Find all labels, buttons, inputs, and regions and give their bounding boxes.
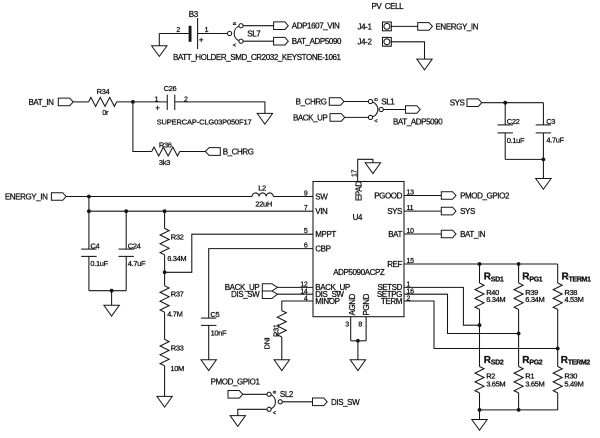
wire TERM pin 2 to RTERM node bbox=[404, 301, 558, 349]
wire R36 to B_CHRG flag bbox=[180, 151, 206, 153]
svg-text:BAT: BAT bbox=[388, 230, 402, 239]
wire SL7 to ADP1607_VIN bbox=[243, 25, 274, 27]
wire ENERGY_IN to L2 bbox=[66, 196, 252, 198]
junction node BAT_IN/C26/R36 bbox=[131, 100, 135, 104]
connector J4-2 bbox=[358, 37, 392, 46]
wire R34 to C26 bbox=[117, 101, 168, 103]
svg-text:DNI: DNI bbox=[262, 337, 271, 349]
wire J4-1 to ENERGY_IN bbox=[391, 25, 417, 27]
wire junction down to R36 bbox=[133, 102, 152, 152]
svg-text:R32: R32 bbox=[171, 233, 184, 242]
svg-text:7: 7 bbox=[304, 205, 308, 212]
svg-text:6.34M: 6.34M bbox=[525, 295, 544, 304]
svg-text:AGND: AGND bbox=[348, 293, 357, 315]
svg-text:22uH: 22uH bbox=[255, 200, 272, 209]
svg-text:SYS: SYS bbox=[387, 207, 402, 216]
wire SL7 to BAT_ADP5090 bbox=[243, 40, 274, 42]
svg-text:R34: R34 bbox=[97, 87, 110, 96]
svg-text:C26: C26 bbox=[164, 84, 177, 93]
junction node C3/ground bbox=[542, 158, 546, 162]
ground divider bbox=[472, 420, 487, 431]
svg-text:4.7M: 4.7M bbox=[167, 310, 182, 319]
wire PGND pin 8 bbox=[365, 317, 367, 341]
svg-text:1: 1 bbox=[155, 96, 159, 103]
svg-text:TERM: TERM bbox=[381, 297, 403, 306]
svg-text:9: 9 bbox=[304, 191, 308, 198]
junction node SETSD bbox=[478, 323, 482, 327]
wire C22 bottom to C3 bbox=[505, 158, 543, 160]
svg-text:PMOD_GPIO1: PMOD_GPIO1 bbox=[211, 377, 261, 386]
svg-text:0.1uF: 0.1uF bbox=[507, 136, 525, 145]
svg-text:5: 5 bbox=[304, 228, 308, 235]
wire C4/C24 bottoms joined bbox=[89, 290, 126, 292]
capacitor C4 bbox=[81, 211, 108, 291]
wire AGND/PGND join bbox=[351, 340, 366, 342]
junction node VIN/C4 bbox=[87, 209, 91, 213]
wire MINOP pin 4 to R31 bbox=[282, 301, 313, 311]
connector J4-1 bbox=[358, 22, 392, 31]
junction node SETPG bbox=[517, 332, 521, 336]
svg-text:DIS_SW: DIS_SW bbox=[331, 398, 360, 407]
svg-text:PMOD_GPIO2: PMOD_GPIO2 bbox=[460, 192, 510, 201]
wire battery to SL7 bbox=[198, 33, 228, 35]
svg-text:+: + bbox=[199, 36, 204, 45]
net flag BAT_ADP5090 bbox=[274, 37, 342, 46]
net flag DIS_SW (to pin 14) bbox=[231, 290, 277, 299]
wire SETPG pin 16 to RPG node bbox=[404, 294, 519, 333]
svg-text:0r: 0r bbox=[102, 108, 109, 117]
ground AGND/PGND bbox=[350, 360, 365, 371]
wire PMOD_GPIO1 to SL2 bbox=[243, 393, 267, 395]
svg-text:4.53M: 4.53M bbox=[564, 295, 583, 304]
capacitor C5 bbox=[201, 310, 227, 360]
ground C5 bbox=[201, 360, 216, 371]
junction node TERM bbox=[556, 347, 560, 351]
svg-text:3k3: 3k3 bbox=[159, 158, 170, 167]
ground C22/C3 bbox=[536, 179, 551, 190]
junction node REF/RSD1 bbox=[478, 262, 482, 266]
junction node R32/R37/MPPT bbox=[163, 270, 167, 274]
svg-text:SL2: SL2 bbox=[280, 390, 294, 399]
junction node VIN/C24 bbox=[124, 209, 128, 213]
junction node bottom RPG2 bbox=[517, 408, 521, 412]
net flag PMOD_GPIO1 bbox=[211, 377, 261, 398]
svg-text:ENERGY_IN: ENERGY_IN bbox=[5, 192, 48, 201]
net flag B_CHRG (output, points left) bbox=[205, 148, 254, 157]
svg-text:B: B bbox=[272, 391, 278, 394]
svg-text:SD2: SD2 bbox=[491, 360, 504, 367]
ground R33 bbox=[157, 396, 172, 407]
svg-text:ADP1607_VIN: ADP1607_VIN bbox=[292, 22, 340, 31]
svg-text:B: B bbox=[232, 22, 238, 25]
svg-text:B_CHRG: B_CHRG bbox=[296, 97, 327, 106]
svg-text:3: 3 bbox=[345, 322, 349, 329]
svg-text:SYS: SYS bbox=[450, 99, 465, 108]
wire bottom rail to ground bbox=[479, 410, 481, 420]
svg-text:3.65M: 3.65M bbox=[486, 380, 505, 389]
wire SL1 common to BAT_ADP5090 bbox=[383, 109, 405, 111]
net flag B_CHRG (to SL1) bbox=[296, 97, 344, 106]
battery B3 bbox=[176, 10, 208, 49]
capacitor C26 supercap bbox=[155, 84, 252, 127]
wire DIS_SW flag to pin 14 bbox=[278, 293, 314, 295]
net flag ADP1607_VIN bbox=[274, 22, 340, 31]
wire SYS pin 11 bbox=[404, 210, 441, 212]
svg-text:PGOOD: PGOOD bbox=[374, 191, 402, 200]
svg-text:SYS: SYS bbox=[460, 207, 475, 216]
svg-text:4.7uF: 4.7uF bbox=[128, 259, 146, 268]
svg-text:B: B bbox=[373, 98, 379, 101]
svg-text:10nF: 10nF bbox=[211, 329, 227, 338]
ground EPAD bbox=[365, 163, 380, 174]
svg-text:C4: C4 bbox=[90, 241, 99, 250]
resistor R40 RSD1 bbox=[475, 264, 505, 367]
svg-text:SL7: SL7 bbox=[247, 29, 261, 38]
net flag SYS (top right) bbox=[450, 99, 482, 108]
svg-text:8: 8 bbox=[358, 322, 362, 329]
svg-text:R33: R33 bbox=[171, 343, 184, 352]
wire J4-2 to ground bbox=[391, 42, 424, 59]
svg-text:R36: R36 bbox=[159, 141, 172, 150]
svg-text:B3: B3 bbox=[189, 10, 199, 19]
wire to ground bbox=[357, 341, 359, 360]
svg-text:BAT_IN: BAT_IN bbox=[460, 230, 486, 239]
svg-text:BAT_ADP5090: BAT_ADP5090 bbox=[292, 37, 342, 46]
switch SL7 bbox=[228, 22, 262, 46]
wire to ground stub bbox=[111, 291, 113, 306]
wire BACK_UP to SL1 bbox=[345, 116, 369, 118]
svg-text:3.65M: 3.65M bbox=[525, 380, 544, 389]
net flag BACK_UP (to SL1) bbox=[293, 113, 345, 122]
svg-text:SW: SW bbox=[315, 192, 328, 201]
wire battery negative bbox=[159, 33, 188, 35]
svg-text:L2: L2 bbox=[258, 183, 266, 192]
junction node caps ground bbox=[110, 289, 114, 293]
svg-text:4.7uF: 4.7uF bbox=[546, 135, 564, 144]
svg-text:C22: C22 bbox=[507, 117, 520, 126]
svg-text:TERM1: TERM1 bbox=[569, 276, 591, 283]
svg-text:PG2: PG2 bbox=[529, 360, 542, 367]
resistor R36 bbox=[152, 141, 180, 167]
switch SL2 bbox=[267, 390, 294, 414]
svg-text:ENERGY_IN: ENERGY_IN bbox=[436, 22, 479, 31]
wire EPAD to ground bbox=[358, 159, 373, 181]
wire SYS to caps bbox=[482, 102, 544, 104]
ground SL2 bbox=[230, 416, 245, 427]
net flag ENERGY_IN (left) bbox=[5, 192, 66, 201]
net flag SYS bbox=[441, 207, 475, 216]
wire B_CHRG to SL1 bbox=[344, 101, 368, 103]
wire PGOOD pin 13 bbox=[404, 195, 441, 197]
resistor R30 RTERM2 bbox=[553, 355, 590, 410]
svg-text:CELL: CELL bbox=[385, 2, 404, 11]
wire REF pin 15 rail bbox=[404, 263, 558, 265]
IC U4 ADP5090ACPZ body bbox=[313, 182, 404, 317]
net flag DIS_SW (from SL2) bbox=[313, 398, 361, 407]
svg-text:EPAD: EPAD bbox=[354, 181, 363, 201]
svg-text:2: 2 bbox=[176, 27, 180, 34]
svg-text:10M: 10M bbox=[170, 364, 184, 373]
svg-text:J4-2: J4-2 bbox=[358, 38, 373, 47]
svg-text:U4: U4 bbox=[353, 213, 363, 222]
switch SL1 bbox=[368, 97, 395, 122]
wire BAT_IN to R34 bbox=[73, 101, 88, 103]
svg-text:SD1: SD1 bbox=[491, 276, 504, 283]
resistor R38 RTERM1 bbox=[553, 264, 591, 367]
svg-text:1: 1 bbox=[205, 27, 209, 34]
net flag BAT_ADP5090 (from SL1) bbox=[393, 106, 443, 127]
resistor R33 bbox=[160, 339, 184, 396]
net flag BACK_UP (to pin 12) bbox=[225, 283, 278, 292]
svg-text:R37: R37 bbox=[171, 289, 184, 298]
svg-text:PV: PV bbox=[372, 2, 383, 11]
svg-text:+: + bbox=[155, 104, 160, 113]
net flag PMOD_GPIO2 bbox=[441, 192, 510, 201]
svg-text:VIN: VIN bbox=[315, 207, 328, 216]
ground R31 bbox=[274, 360, 289, 371]
junction node bottom RSD2 bbox=[478, 408, 482, 412]
junction node REF/RPG1 bbox=[517, 262, 521, 266]
resistor R1 RPG2 bbox=[514, 355, 544, 410]
wire MPPT feedback bbox=[165, 234, 313, 272]
svg-text:PGND: PGND bbox=[362, 293, 371, 315]
ground C26 bbox=[257, 113, 272, 124]
wire down to VIN rail bbox=[88, 197, 90, 212]
junction node SYS/C22 bbox=[503, 101, 507, 105]
svg-text:PG1: PG1 bbox=[529, 276, 542, 283]
junction node AGND/PGND bbox=[356, 339, 360, 343]
junction node VIN/R32 bbox=[163, 209, 167, 213]
junction node ENERGY_IN/VIN bbox=[87, 195, 91, 199]
svg-text:TERM2: TERM2 bbox=[568, 360, 590, 367]
svg-text:J4-1: J4-1 bbox=[358, 22, 373, 31]
wire VIN rail bbox=[89, 210, 313, 212]
svg-text:C3: C3 bbox=[546, 117, 555, 126]
svg-text:B_CHRG: B_CHRG bbox=[223, 148, 254, 157]
resistor R31 (DNI) bbox=[262, 311, 286, 360]
wire L2 to SW pin bbox=[273, 196, 313, 198]
resistor R37 bbox=[160, 272, 184, 339]
inductor L2 bbox=[252, 183, 273, 208]
svg-text:BAT_ADP5090: BAT_ADP5090 bbox=[393, 118, 443, 127]
net flag BAT_IN bbox=[441, 230, 485, 239]
wire CBP pin 6 to C5 bbox=[209, 249, 313, 319]
wire C26 to ground bbox=[175, 102, 265, 114]
svg-text:MINOP: MINOP bbox=[315, 297, 339, 306]
svg-text:SUPERCAP-CLG03P050F17: SUPERCAP-CLG03P050F17 bbox=[157, 118, 252, 127]
wire divider bottom rail bbox=[480, 409, 558, 411]
svg-text:C24: C24 bbox=[128, 241, 141, 250]
wire SETSD pin 1 to RSD node bbox=[404, 287, 480, 325]
resistor R39 RPG1 bbox=[514, 264, 544, 367]
resistor R32 bbox=[160, 211, 186, 272]
svg-text:0.1uF: 0.1uF bbox=[90, 259, 108, 268]
svg-text:BAT_IN: BAT_IN bbox=[28, 98, 54, 107]
svg-text:6.34M: 6.34M bbox=[167, 254, 186, 263]
capacitor C3 bbox=[536, 103, 565, 179]
capacitor C22 bbox=[498, 103, 525, 160]
svg-text:MPPT: MPPT bbox=[315, 230, 336, 239]
svg-text:5.49M: 5.49M bbox=[564, 380, 583, 389]
wire SL2 throw A to ground bbox=[238, 409, 267, 415]
wire BAT pin 10 bbox=[404, 233, 441, 235]
svg-text:BACK_UP: BACK_UP bbox=[293, 113, 328, 122]
svg-text:6.34M: 6.34M bbox=[486, 295, 505, 304]
svg-text:BATT_HOLDER_SMD_CR2032_KEYSTON: BATT_HOLDER_SMD_CR2032_KEYSTONE-1061 bbox=[173, 53, 342, 62]
net flag BAT_IN (left) bbox=[28, 98, 73, 107]
resistor R2 RSD2 bbox=[475, 355, 505, 410]
ground C4/C24 bbox=[104, 305, 119, 316]
net flag ENERGY_IN bbox=[418, 22, 479, 31]
wire BACK_UP flag to pin 12 bbox=[278, 286, 314, 288]
wire AGND pin 3 bbox=[350, 317, 352, 341]
resistor R34 bbox=[89, 87, 117, 117]
svg-text:ADP5090ACPZ: ADP5090ACPZ bbox=[333, 268, 385, 277]
svg-text:DIS_SW: DIS_SW bbox=[231, 290, 260, 299]
wire SL2 common to DIS_SW bbox=[282, 401, 312, 403]
svg-text:SL1: SL1 bbox=[381, 97, 395, 106]
ground battery B3 bbox=[152, 34, 167, 57]
ground J4-2 bbox=[417, 59, 432, 70]
capacitor C24 bbox=[119, 211, 146, 291]
svg-text:C5: C5 bbox=[210, 310, 219, 319]
svg-text:REF: REF bbox=[387, 260, 402, 269]
svg-text:CBP: CBP bbox=[315, 244, 330, 253]
svg-text:R31: R31 bbox=[272, 324, 281, 337]
